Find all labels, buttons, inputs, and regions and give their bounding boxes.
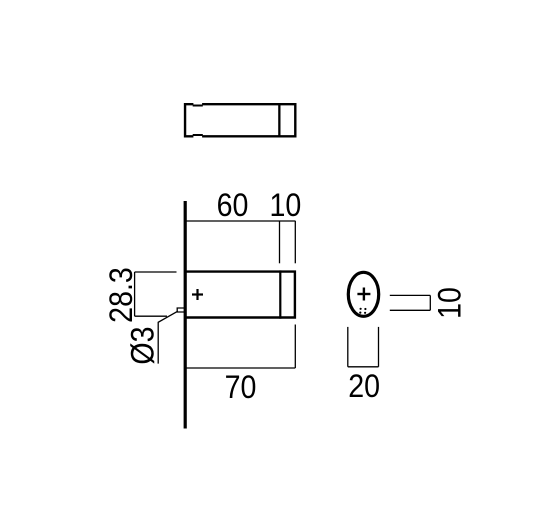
extension line top 28.3 — [135, 271, 177, 273]
side view ellipse — [348, 272, 378, 316]
wall line — [184, 201, 187, 429]
dimension 10 right dim line — [429, 295, 431, 310]
front view divider line — [279, 270, 281, 318]
front view fixing hole (Ø3) — [177, 308, 184, 312]
svg-text:70: 70 — [225, 369, 257, 405]
svg-text:Ø3: Ø3 — [125, 326, 161, 364]
extension line at x=295.3 upper — [294, 221, 296, 263]
front view body outline — [184, 272, 295, 318]
top view divider line — [278, 103, 280, 138]
dimension 20 dim line — [348, 366, 379, 368]
dimension line 28.3 — [134, 272, 136, 316]
side view center cross — [357, 288, 370, 301]
side view hole center dots — [359, 308, 366, 314]
top view top notch — [193, 102, 203, 105]
dimension 10 right extension bottom — [390, 309, 431, 311]
svg-text:20: 20 — [348, 368, 380, 404]
dimension 20 extension left — [347, 327, 349, 367]
svg-text:10: 10 — [269, 187, 301, 223]
extension line at x=279.5 — [279, 221, 281, 263]
svg-text:60: 60 — [217, 187, 249, 223]
dimension line 60/10 — [185, 220, 295, 222]
dimension 10 right extension top — [390, 294, 431, 296]
svg-text:28.3: 28.3 — [103, 267, 139, 323]
dimension line 70 — [185, 367, 295, 369]
extension line bottom 28.3 — [135, 315, 167, 317]
extension line at x=295.3 lower — [294, 325, 296, 369]
dimension 20 extension right — [378, 327, 380, 367]
top view outline — [185, 104, 295, 136]
front view center cross — [192, 289, 203, 300]
svg-text:10: 10 — [432, 287, 468, 319]
top view bottom notch — [193, 135, 203, 138]
leader line Ø3 — [158, 311, 178, 363]
